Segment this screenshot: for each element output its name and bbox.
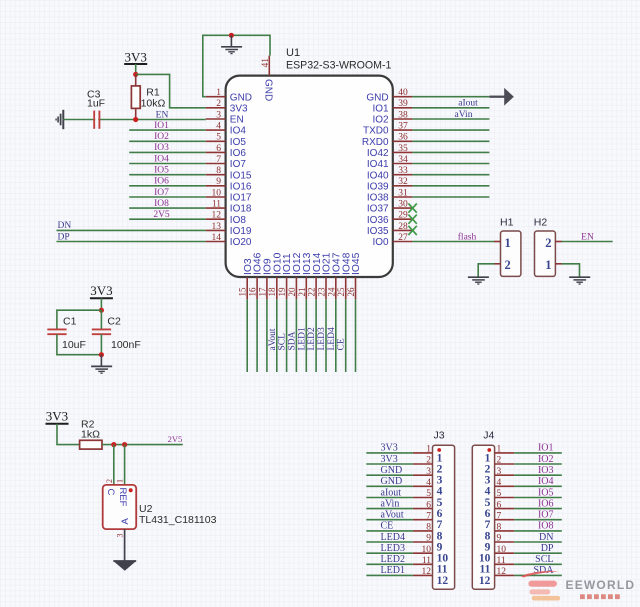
svg-text:15: 15 bbox=[238, 287, 248, 297]
svg-text:EEWORLD: EEWORLD bbox=[566, 578, 636, 592]
svg-text:CE: CE bbox=[337, 338, 347, 350]
ground (H1) bbox=[468, 276, 489, 278]
svg-text:aIout: aIout bbox=[458, 99, 478, 109]
svg-text:LED1: LED1 bbox=[297, 327, 307, 350]
svg-text:SCL: SCL bbox=[278, 333, 288, 351]
node EN junction bbox=[133, 117, 138, 122]
wire J4 pin4 bbox=[514, 485, 562, 487]
wire U2 to gnd bbox=[124, 529, 126, 561]
svg-text:11: 11 bbox=[422, 556, 431, 566]
wire DN bbox=[57, 229, 206, 231]
svg-text:9: 9 bbox=[216, 177, 221, 187]
svg-text:LED3: LED3 bbox=[317, 327, 327, 350]
svg-text:IO15: IO15 bbox=[230, 170, 252, 181]
svg-text:RXD0: RXD0 bbox=[362, 137, 389, 148]
svg-text:34: 34 bbox=[398, 155, 408, 165]
svg-text:3: 3 bbox=[216, 110, 221, 120]
wire U2 pin C bbox=[113, 445, 115, 485]
svg-text:IO5: IO5 bbox=[538, 487, 554, 498]
svg-text:21: 21 bbox=[297, 288, 307, 297]
svg-text:REF: REF bbox=[117, 488, 128, 507]
pin 16 bbox=[256, 277, 258, 299]
svg-text:1: 1 bbox=[216, 88, 221, 98]
wire bottom pin23 bbox=[325, 299, 327, 372]
wire J4 pin11 bbox=[514, 563, 562, 565]
svg-text:IO35: IO35 bbox=[367, 226, 389, 237]
svg-text:GND: GND bbox=[230, 92, 252, 103]
U2 pin1 dot bbox=[129, 488, 133, 492]
resistor R1 bbox=[135, 74, 137, 86]
svg-text:23: 23 bbox=[317, 287, 327, 297]
J4 pin 7 bbox=[495, 519, 515, 521]
svg-text:LED4: LED4 bbox=[327, 327, 337, 350]
svg-text:EN: EN bbox=[230, 115, 244, 126]
J4 pin 2 bbox=[495, 463, 515, 465]
pin 18 bbox=[276, 277, 278, 299]
svg-text:2: 2 bbox=[437, 463, 443, 475]
wire J3 pin4 bbox=[366, 485, 413, 487]
pin 14 bbox=[206, 241, 226, 243]
svg-text:12: 12 bbox=[437, 575, 449, 587]
svg-text:IO45: IO45 bbox=[351, 252, 362, 275]
svg-text:36: 36 bbox=[398, 133, 408, 143]
svg-text:IO0: IO0 bbox=[372, 237, 389, 248]
wire right pin37 bbox=[412, 129, 489, 131]
svg-text:DN: DN bbox=[539, 532, 553, 543]
ground (C1C2) bbox=[100, 355, 102, 366]
svg-text:4: 4 bbox=[426, 478, 431, 488]
wire bottom pin22 bbox=[315, 299, 317, 372]
svg-text:IO7: IO7 bbox=[538, 510, 554, 521]
H2 pin 1 bbox=[555, 263, 562, 265]
wire bottom pin21 bbox=[305, 299, 307, 372]
svg-text:IO6: IO6 bbox=[154, 177, 169, 187]
svg-text:3V3: 3V3 bbox=[125, 50, 147, 65]
svg-text:2: 2 bbox=[426, 456, 431, 466]
wire bottom pin25 bbox=[345, 299, 347, 372]
pin 22 bbox=[315, 277, 317, 299]
J3 pin 1 bbox=[413, 452, 433, 454]
wire H1 pin2 to gnd bbox=[478, 264, 494, 277]
svg-text:IO6: IO6 bbox=[538, 498, 554, 509]
wire cap top bbox=[57, 310, 102, 329]
wire J3 pin7 bbox=[366, 519, 413, 521]
svg-text:IO16: IO16 bbox=[230, 181, 252, 192]
svg-text:aVout: aVout bbox=[381, 510, 404, 521]
svg-text:EN: EN bbox=[156, 110, 169, 120]
svg-text:SCL: SCL bbox=[535, 554, 553, 565]
svg-text:27: 27 bbox=[398, 233, 408, 243]
J3 pin1 marker bbox=[437, 448, 441, 452]
wire U2 pin REF bbox=[124, 445, 126, 485]
svg-text:11: 11 bbox=[497, 556, 506, 566]
svg-text:4: 4 bbox=[485, 486, 491, 498]
svg-text:1: 1 bbox=[426, 445, 431, 455]
svg-text:aVout: aVout bbox=[268, 328, 278, 350]
svg-text:GND: GND bbox=[366, 92, 388, 103]
connector H2 bbox=[535, 231, 556, 276]
svg-text:9: 9 bbox=[497, 534, 502, 544]
pin 15 bbox=[246, 277, 248, 299]
wire IO pin5 bbox=[129, 140, 206, 142]
svg-text:1uF: 1uF bbox=[87, 98, 105, 110]
wire IO pin7 bbox=[129, 163, 206, 165]
svg-text:IO19: IO19 bbox=[230, 226, 252, 237]
wire pin1 to top gnd bbox=[203, 35, 270, 96]
pin 3 bbox=[206, 118, 226, 120]
wire right pin39 bbox=[412, 107, 489, 109]
arrow (pin 40 net) bbox=[489, 96, 505, 98]
svg-text:IO5: IO5 bbox=[230, 137, 247, 148]
pin 11 bbox=[206, 207, 226, 209]
pin 9 bbox=[206, 185, 226, 187]
svg-text:100nF: 100nF bbox=[111, 339, 141, 351]
wire IO pin4 bbox=[129, 129, 206, 131]
wire cap bottom bbox=[57, 334, 102, 355]
pin 32 bbox=[393, 185, 413, 187]
svg-text:IO37: IO37 bbox=[367, 204, 389, 215]
pin 39 bbox=[393, 107, 413, 109]
wire bottom pin17 bbox=[266, 299, 268, 372]
wire right pin40 bbox=[412, 96, 489, 98]
op-amp U1 body bbox=[226, 76, 393, 277]
pin 28 bbox=[393, 229, 413, 231]
J4 pin 6 bbox=[495, 508, 515, 510]
wire bottom pin20 bbox=[295, 299, 297, 372]
svg-text:6: 6 bbox=[497, 500, 502, 510]
svg-text:J4: J4 bbox=[483, 429, 494, 441]
svg-text:J3: J3 bbox=[434, 429, 445, 441]
svg-text:CE: CE bbox=[381, 521, 394, 532]
svg-text:5: 5 bbox=[216, 133, 221, 143]
wire C2 bottom bbox=[100, 334, 102, 355]
pin 6 bbox=[206, 151, 226, 153]
svg-text:IO40: IO40 bbox=[367, 170, 389, 181]
node caps gnd bbox=[99, 352, 104, 357]
pin 24 bbox=[335, 277, 337, 299]
svg-text:9: 9 bbox=[437, 541, 443, 553]
J3 pin 2 bbox=[413, 463, 433, 465]
wire J3 pin10 bbox=[366, 552, 413, 554]
svg-text:IO1: IO1 bbox=[538, 443, 554, 454]
svg-text:LED2: LED2 bbox=[307, 327, 317, 350]
svg-text:C1: C1 bbox=[63, 316, 77, 328]
svg-text:IO39: IO39 bbox=[367, 181, 389, 192]
wire bottom pin24 bbox=[335, 299, 337, 372]
wire right pin34 bbox=[412, 163, 489, 165]
svg-text:12: 12 bbox=[479, 575, 491, 587]
svg-text:8: 8 bbox=[216, 166, 221, 176]
svg-text:33: 33 bbox=[398, 166, 408, 176]
node top gnd junction bbox=[229, 33, 234, 38]
svg-text:aIout: aIout bbox=[381, 487, 402, 498]
svg-text:9: 9 bbox=[426, 534, 431, 544]
wire IO pin11 bbox=[129, 207, 206, 209]
svg-text:17: 17 bbox=[257, 287, 267, 297]
wire J3 pin9 bbox=[366, 541, 413, 543]
J3 pin 5 bbox=[413, 497, 433, 499]
wire EN net bbox=[63, 119, 206, 121]
wire J3 pin2 bbox=[366, 463, 413, 465]
wire J4 pin8 bbox=[514, 530, 562, 532]
svg-text:37: 37 bbox=[398, 122, 408, 132]
J3 pin 8 bbox=[413, 530, 433, 532]
wire H2 pin2 EN bbox=[562, 241, 613, 243]
pin 2 bbox=[206, 107, 226, 109]
svg-text:IO4: IO4 bbox=[538, 476, 554, 487]
svg-text:39: 39 bbox=[398, 99, 408, 109]
svg-text:flash: flash bbox=[458, 231, 477, 242]
svg-text:IO8: IO8 bbox=[154, 199, 169, 209]
svg-text:IO4: IO4 bbox=[230, 126, 247, 137]
J4 pin 12 bbox=[495, 574, 515, 576]
svg-text:3: 3 bbox=[497, 467, 502, 477]
wire right pin38 bbox=[412, 118, 489, 120]
pin 21 bbox=[305, 277, 307, 299]
pin 29 bbox=[393, 218, 413, 220]
capacitor C1 bbox=[47, 328, 66, 330]
svg-text:IO42: IO42 bbox=[367, 148, 389, 159]
svg-text:3: 3 bbox=[116, 534, 125, 538]
svg-text:1: 1 bbox=[497, 445, 502, 455]
pin 38 bbox=[393, 118, 413, 120]
svg-text:DP: DP bbox=[58, 232, 70, 242]
J4 pin1 marker bbox=[487, 448, 491, 452]
wire bottom pin19 bbox=[286, 299, 288, 372]
wire J3 pin12 bbox=[366, 574, 413, 576]
wire J3 pin1 bbox=[366, 452, 413, 454]
node 2V5 b bbox=[122, 442, 127, 447]
pin 41 bbox=[268, 56, 270, 76]
no-connect pin29 bbox=[408, 215, 416, 224]
svg-text:C2: C2 bbox=[107, 316, 121, 328]
pin 23 bbox=[325, 277, 327, 299]
wire flash bbox=[412, 241, 494, 243]
svg-text:2: 2 bbox=[485, 463, 491, 475]
wire right pin36 bbox=[412, 140, 489, 142]
svg-text:IO41: IO41 bbox=[367, 159, 389, 170]
svg-text:aVin: aVin bbox=[381, 498, 400, 509]
J3 pin 9 bbox=[413, 541, 433, 543]
svg-text:2: 2 bbox=[497, 456, 502, 466]
wire DP bbox=[57, 241, 206, 243]
wire C2 top bbox=[100, 310, 102, 329]
pin 12 bbox=[206, 218, 226, 220]
wire bottom pin16 bbox=[256, 299, 258, 372]
J3 pin 12 bbox=[413, 574, 433, 576]
pin 27 bbox=[393, 241, 413, 243]
svg-text:IO17: IO17 bbox=[230, 193, 252, 204]
svg-text:4: 4 bbox=[437, 486, 443, 498]
svg-text:22: 22 bbox=[307, 288, 317, 297]
svg-text:5: 5 bbox=[426, 489, 431, 499]
wire J3 pin6 bbox=[366, 508, 413, 510]
svg-text:7: 7 bbox=[426, 511, 431, 521]
svg-text:IO8: IO8 bbox=[538, 521, 554, 532]
svg-text:31: 31 bbox=[398, 188, 408, 198]
wire 2V5 net bbox=[102, 444, 183, 446]
node 3V3/R1 junction bbox=[133, 72, 138, 77]
wire J4 pin9 bbox=[514, 541, 562, 543]
svg-text:16: 16 bbox=[248, 287, 258, 297]
wire IO pin12 bbox=[129, 218, 206, 220]
wire IO pin10 bbox=[129, 196, 206, 198]
resistor R2 bbox=[80, 440, 102, 449]
svg-text:24: 24 bbox=[326, 287, 336, 297]
svg-text:2V5: 2V5 bbox=[168, 434, 183, 444]
svg-text:12: 12 bbox=[422, 567, 432, 577]
ground (H2) bbox=[569, 276, 590, 278]
wire J4 pin5 bbox=[514, 497, 562, 499]
transistor U2 body bbox=[103, 485, 137, 529]
wire J4 pin1 bbox=[514, 452, 562, 454]
svg-text:35: 35 bbox=[398, 144, 408, 154]
J3 pin 7 bbox=[413, 519, 433, 521]
pin 37 bbox=[393, 129, 413, 131]
svg-text:9: 9 bbox=[485, 541, 491, 553]
svg-text:SDA: SDA bbox=[287, 331, 297, 350]
connector H1 bbox=[501, 231, 521, 276]
svg-text:7: 7 bbox=[497, 511, 502, 521]
svg-text:1: 1 bbox=[505, 236, 511, 250]
wire J4 pin10 bbox=[514, 552, 562, 554]
svg-text:28: 28 bbox=[398, 222, 408, 232]
svg-text:H1: H1 bbox=[500, 217, 514, 229]
svg-text:12: 12 bbox=[497, 567, 507, 577]
H2 pin 2 bbox=[555, 241, 562, 243]
svg-text:38: 38 bbox=[398, 110, 408, 120]
svg-text:2: 2 bbox=[105, 479, 114, 483]
svg-text:LED3: LED3 bbox=[381, 543, 405, 554]
capacitor C2 bbox=[92, 328, 111, 330]
pin 30 bbox=[393, 207, 413, 209]
wire IO pin6 bbox=[129, 151, 206, 153]
svg-text:2: 2 bbox=[505, 258, 511, 272]
wire IO pin9 bbox=[129, 185, 206, 187]
svg-text:4: 4 bbox=[216, 122, 221, 132]
svg-text:EN: EN bbox=[581, 232, 594, 242]
svg-text:3V3: 3V3 bbox=[46, 408, 68, 423]
pin 1 bbox=[206, 96, 226, 98]
svg-text:IO18: IO18 bbox=[230, 204, 252, 215]
wire right pin32 bbox=[412, 185, 489, 187]
svg-text:6: 6 bbox=[426, 500, 431, 510]
pin 19 bbox=[286, 277, 288, 299]
svg-text:IO6: IO6 bbox=[230, 148, 247, 159]
svg-text:26: 26 bbox=[346, 287, 356, 297]
EEWORLD logo cjk bbox=[580, 594, 585, 599]
svg-text:IO4: IO4 bbox=[154, 154, 169, 164]
wire bottom pin26 bbox=[355, 299, 357, 372]
J4 pin 3 bbox=[495, 474, 515, 476]
svg-text:7: 7 bbox=[437, 519, 443, 531]
svg-text:IO5: IO5 bbox=[154, 166, 169, 176]
svg-text:IO7: IO7 bbox=[154, 188, 169, 198]
pin 26 bbox=[355, 277, 357, 299]
svg-text:IO3: IO3 bbox=[154, 143, 169, 153]
connector J4 bbox=[472, 445, 494, 589]
J3 pin 3 bbox=[413, 474, 433, 476]
svg-text:A: A bbox=[120, 518, 131, 525]
J4 pin 11 bbox=[495, 563, 515, 565]
svg-text:4: 4 bbox=[497, 478, 502, 488]
svg-text:GND: GND bbox=[381, 465, 403, 476]
svg-text:12: 12 bbox=[212, 211, 222, 221]
svg-text:1kΩ: 1kΩ bbox=[81, 429, 100, 441]
wire J3 pin5 bbox=[366, 497, 413, 499]
svg-text:IO8: IO8 bbox=[230, 215, 247, 226]
svg-text:aVin: aVin bbox=[455, 110, 473, 120]
pin 10 bbox=[206, 196, 226, 198]
svg-text:40: 40 bbox=[398, 88, 408, 98]
wire 3V3 to R2 bbox=[57, 424, 80, 445]
pin 5 bbox=[206, 140, 226, 142]
svg-text:3V3: 3V3 bbox=[381, 443, 398, 454]
no-connect pin30 bbox=[408, 204, 416, 213]
pin 33 bbox=[393, 174, 413, 176]
wire J4 pin3 bbox=[514, 474, 562, 476]
wire H2 pin1 to gnd bbox=[562, 264, 580, 277]
wire J4 pin6 bbox=[514, 508, 562, 510]
wire J4 pin12 bbox=[514, 574, 562, 576]
svg-text:6: 6 bbox=[216, 144, 221, 154]
capacitor C3 bbox=[93, 111, 95, 129]
ground (U2, earth) bbox=[113, 560, 136, 562]
wire bottom pin15 bbox=[246, 299, 248, 372]
svg-text:32: 32 bbox=[398, 177, 408, 187]
pin 4 bbox=[206, 129, 226, 131]
pin 25 bbox=[345, 277, 347, 299]
svg-text:LED4: LED4 bbox=[381, 532, 405, 543]
J4 pin 4 bbox=[495, 485, 515, 487]
J3 pin 10 bbox=[413, 552, 433, 554]
svg-text:5: 5 bbox=[497, 489, 502, 499]
H1 pin 2 bbox=[494, 263, 501, 265]
svg-text:GND: GND bbox=[262, 79, 273, 101]
pin 7 bbox=[206, 163, 226, 165]
wire J4 pin2 bbox=[514, 463, 562, 465]
pin 40 bbox=[393, 96, 413, 98]
svg-text:10kΩ: 10kΩ bbox=[141, 98, 166, 110]
J4 pin 1 bbox=[495, 452, 515, 454]
svg-text:1: 1 bbox=[116, 479, 125, 483]
svg-text:IO20: IO20 bbox=[230, 237, 252, 248]
svg-text:19: 19 bbox=[277, 287, 287, 297]
svg-text:3V3: 3V3 bbox=[381, 454, 398, 465]
svg-text:7: 7 bbox=[216, 155, 221, 165]
svg-text:IO3: IO3 bbox=[538, 465, 554, 476]
svg-text:1: 1 bbox=[545, 258, 551, 272]
svg-text:10uF: 10uF bbox=[62, 339, 86, 351]
wire 3V3 to caps bbox=[100, 298, 102, 310]
pin 36 bbox=[393, 140, 413, 142]
svg-text:ESP32-S3-WROOM-1: ESP32-S3-WROOM-1 bbox=[286, 60, 391, 72]
svg-text:IO2: IO2 bbox=[372, 115, 389, 126]
J4 pin 10 bbox=[495, 552, 515, 554]
svg-text:GND: GND bbox=[381, 476, 403, 487]
wire J3 pin8 bbox=[366, 530, 413, 532]
svg-text:10: 10 bbox=[497, 545, 507, 555]
svg-text:C: C bbox=[105, 489, 116, 496]
pin 17 bbox=[266, 277, 268, 299]
ground (left of C3) bbox=[62, 110, 64, 129]
wire J4 pin7 bbox=[514, 519, 562, 521]
svg-text:DN: DN bbox=[58, 221, 72, 231]
svg-text:10: 10 bbox=[422, 545, 432, 555]
svg-text:2: 2 bbox=[545, 236, 551, 250]
node 2V5 a bbox=[111, 442, 116, 447]
svg-text:DP: DP bbox=[541, 543, 554, 554]
